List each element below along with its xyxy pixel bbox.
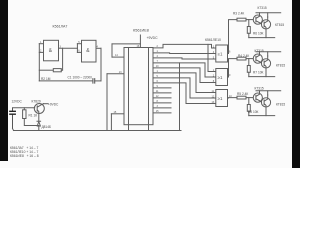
transistor Q2 KT815 (stage 1) [261,20,270,29]
svg-text:К561ИЕ8 + 16 – 8: К561ИЕ8 + 16 – 8 [10,154,39,158]
wire gate1 output + riser to stage1 [228,20,238,54]
wire counter pin stub [153,102,171,104]
wire top run to +9VDC riser [112,43,140,45]
wire C1 bottom line left [39,80,93,82]
resistor R2 branch left lead [39,69,53,71]
wire DD1.1 output pin3 to DD1.2 inputs [59,47,78,49]
wire counter pin stub [153,112,171,114]
svg-text:≥1: ≥1 [218,96,223,101]
resistor R4 (stage 2 base resistor) [237,57,246,60]
wire counter carry pin12 stub [153,97,171,99]
svg-text:КТ815: КТ815 [276,63,285,67]
svg-text:К561ИЕ8: К561ИЕ8 [133,28,149,32]
svg-text:12VDC: 12VDC [12,99,23,103]
capacitor C1 plates [93,79,95,83]
wire C1 bottom line right [95,80,101,82]
svg-text:R1 1К: R1 1К [29,114,38,118]
resistor R7 lead from base line [248,59,250,66]
wire counter output Q0 routing to gate1 in1 and gate2 in1 [153,44,216,48]
wire Q2 emitter down [265,29,267,38]
wire shared branch down to gate2 in1 [208,44,216,71]
wire Q2 collector riser [267,13,269,17]
transistor Q3 KT315 (stage 2) [253,54,262,63]
wire counter output Q8 stub [153,87,171,89]
svg-text:+9VDC: +9VDC [48,103,59,107]
wire counter pin stub [153,107,171,109]
resistor R6 lead from base line [248,20,250,27]
wire counter output Q9 stub [153,92,171,94]
wire Q5 emitter to Q6 base [260,101,263,102]
wire regulator output to +9VDC [44,103,49,105]
resistor R2 right lead + riser to output line [61,48,62,70]
svg-text:R7 10К: R7 10К [253,71,264,75]
svg-text:R6 10К: R6 10К [253,32,264,36]
resistor R5 (stage 3 base resistor) [237,96,246,99]
svg-text:R5 2.4К: R5 2.4К [237,92,248,96]
svg-text:R3 2.4К: R3 2.4К [233,11,244,15]
wire counter output Q6 to gate3 in2 [153,78,216,98]
svg-text:Д814Б: Д814Б [42,125,52,129]
resistor R1 [23,110,26,119]
zener diode VD1 D814B [37,114,41,131]
IC DD2 inner separator right [148,48,150,125]
capacitor C2 plates [10,111,16,114]
wire Q1 emitter to Q2 base [260,23,263,24]
wire counter output Q1 to gate1 in2 [153,52,216,55]
wire DD1.2 output pin4 [96,47,101,49]
wire counter clock pin14 stub [112,56,124,58]
wire stage3 collector rail [256,90,281,92]
wire DD1.1 input tie vertical / feedback [38,44,40,81]
transistor Q5 KT315 (stage 3) [253,93,262,102]
resistor R6 (stage 1 bleed) [247,27,250,34]
IC DD2 K561IE8 counter box [124,48,153,125]
wire R3 to Q1 base [246,19,253,21]
wire counter output Q4 to gate2 in3 [153,68,216,83]
wire counter output Q5 to gate3 in1 [153,73,216,93]
resistor R8 (stage 3 bleed) [247,105,250,112]
transistor Q4 KT815 (stage 2) [261,59,270,68]
wire DD1.1 input stub pin1 [39,43,43,45]
wire stage1 emitter bottom line [249,37,275,39]
wire counter output Q3 to gate2 in2 [153,63,216,77]
wire gate2 output + riser to stage2 [228,59,238,77]
wire DD1.2 input stub pin6 [77,51,81,53]
wire Q6 emitter down [265,107,267,116]
wire Q6 collector riser [267,91,269,95]
op-amp U1 : oscillator gate DD1.1 & box [44,40,59,61]
svg-text:КТ815: КТ815 [276,103,285,107]
left black border bar [0,0,8,161]
wire DD1.2 input tie vertical [76,44,78,53]
wire R1 bottom lead to zener node [24,119,39,126]
gate DD3.2 NOR box [216,69,228,86]
svg-text:+9VDC: +9VDC [147,36,159,40]
wire ground rail left start [13,129,14,131]
node +9VDC terminal riser pin16 [139,35,141,48]
transistor VT1 KT829 regulator [34,104,44,114]
wire R8 bottom lead [248,111,250,115]
wire stage2 emitter bottom line [249,76,275,78]
wire clock riser [111,44,113,57]
svg-text:≥1: ≥1 [218,75,223,80]
svg-text:КТ815: КТ815 [275,23,284,27]
ground rail [14,130,182,132]
wire counter bottom stub B [148,125,150,131]
svg-text:КТ315: КТ315 [255,87,264,91]
wire stage2 collector rail [256,51,281,53]
wire counter output Q2 to gate1 in3 [153,58,216,59]
capacitor C2 input electrolytic leads [12,108,14,129]
IC DD2 inner separator left [128,48,130,125]
wire gate3 output + riser to stage3 [228,97,238,99]
svg-text:R4 2.4К: R4 2.4К [238,54,249,58]
wire Q4 collector riser [267,52,269,56]
wire R4 to Q3 base [246,58,253,60]
transistor Q6 KT815 (stage 3) [261,98,270,107]
wire counter output Q7 to gate3 in3 [153,83,216,104]
wire Q4 emitter down [265,68,267,77]
svg-text:К561ЛЕ10: К561ЛЕ10 [205,38,221,42]
svg-text:С1 1000 – 22000: С1 1000 – 22000 [68,75,93,79]
wire counter bottom stub A [128,125,130,131]
gate DD3.3 NOR box [216,90,228,107]
wire R7 bottom lead [248,72,250,76]
svg-text:≥1: ≥1 [218,52,223,57]
wire pin15 stub [111,113,124,115]
wire pin13 stub [107,73,124,75]
right black border bar [292,0,300,168]
resistor R7 (stage 2 bleed) [247,66,250,73]
svg-text:КТ315: КТ315 [258,6,267,10]
wire DD1.2 input stub pin5 [77,43,81,45]
wire R5 to Q5 base [246,97,253,99]
svg-text:К561ЛА7: К561ЛА7 [53,25,68,29]
wire pin15 down to ground rail [110,114,112,131]
svg-text:R2 1М: R2 1М [41,77,51,81]
wire reset riser Q3 to ground rail [179,63,181,131]
wire Q3 emitter to Q4 base [260,62,263,63]
resistor R1 top lead [23,108,25,110]
svg-text:R8 10К: R8 10К [248,110,259,114]
transistor Q1 KT315 (stage 1) [253,15,262,24]
gate DD3.1 NOR box [216,45,228,62]
svg-text:КТ829: КТ829 [32,99,41,103]
resistor R3 (stage 1 base resistor) [237,18,246,21]
op-amp U2 : oscillator gate DD1.2 & box [82,40,97,62]
wire oscillator output down to C1 [100,48,102,81]
wire stage1 collector rail [256,12,281,14]
wire DD1.1 input stub pin2 [39,51,43,53]
wire 12VDC input top [14,107,35,109]
wire stage3 emitter bottom line [249,115,275,117]
wire R6 bottom lead [248,33,250,37]
resistor R8 lead from base line [248,98,250,105]
wire pin13 down to ground rail [106,74,108,131]
svg-text:КТ315: КТ315 [255,49,264,53]
resistor R2 [53,69,61,72]
